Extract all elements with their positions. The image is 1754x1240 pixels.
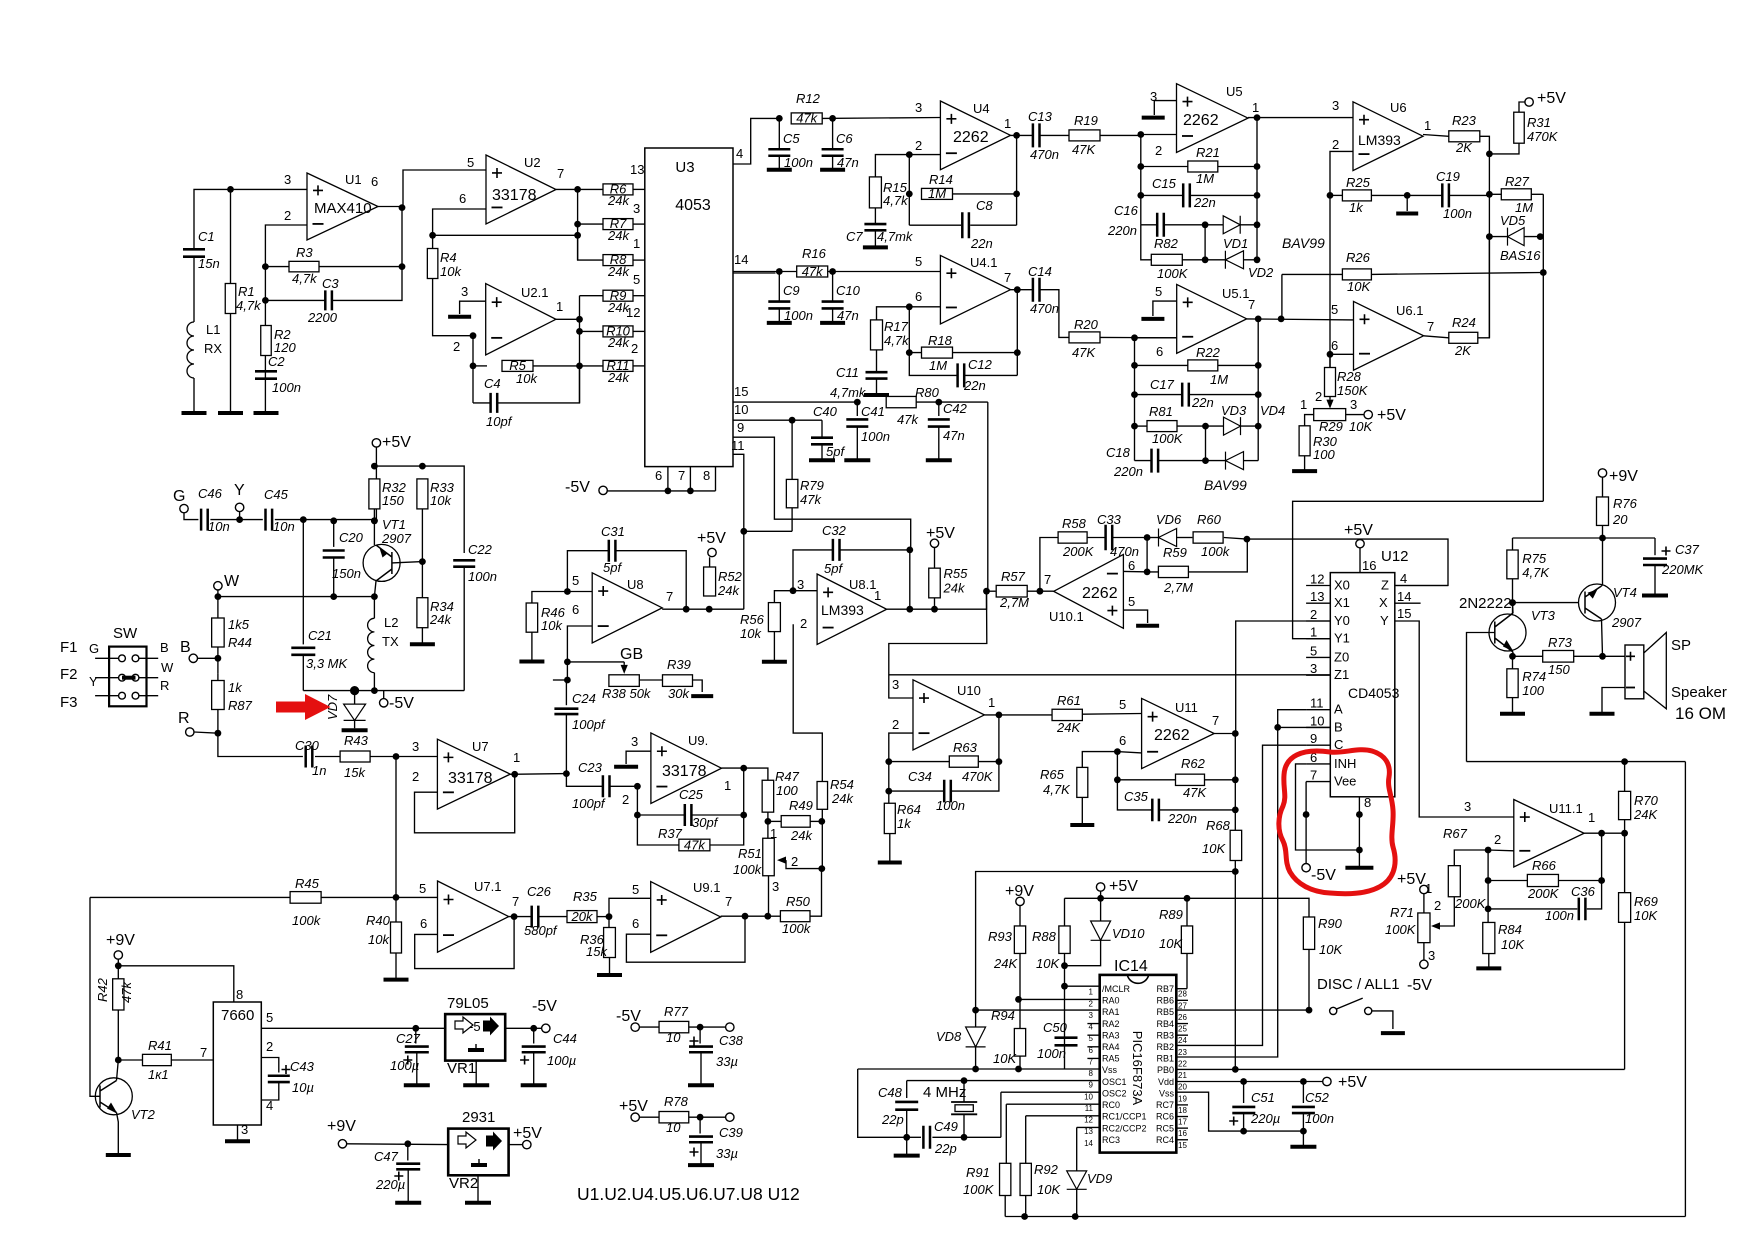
capacitor C24 [565,680,567,705]
svg-text:+5V: +5V [1338,1074,1367,1091]
svg-text:220MK: 220MK [1661,562,1705,577]
svg-text:R64: R64 [897,802,921,817]
svg-text:C36: C36 [1571,884,1596,899]
svg-text:2K: 2K [1455,140,1473,155]
svg-text:C26: C26 [527,884,552,899]
ground [688,1163,714,1167]
svg-text:INH: INH [1334,756,1356,771]
svg-text:C17: C17 [1150,377,1175,392]
resistor R93 [1014,926,1025,954]
svg-text:R66: R66 [1532,858,1557,873]
svg-text:6: 6 [420,916,427,931]
svg-text:R89: R89 [1159,907,1183,922]
wire pin 8 gnd [1358,797,1360,868]
svg-text:7: 7 [725,894,732,909]
ground [404,1083,430,1087]
resistor R26 [1282,273,1343,275]
diode VD6 [1147,537,1158,539]
wire VT2 base to R45 net [90,897,100,1096]
wire GB wiper [567,661,624,663]
svg-text:30pf: 30pf [692,815,719,830]
wire R26 leg to U5.1 output [1281,274,1283,319]
svg-text:+9V: +9V [327,1118,356,1135]
svg-text:C10: C10 [836,283,861,298]
svg-text:VT4: VT4 [1613,585,1637,600]
wire Vee to -5V [1305,782,1307,864]
svg-text:R42: R42 [95,977,110,1002]
resistor R34 [417,598,428,628]
svg-text:12: 12 [1310,572,1324,587]
svg-text:25: 25 [1178,1025,1187,1034]
svg-text:C8: C8 [976,198,993,213]
svg-text:+9V: +9V [1005,883,1034,900]
op-amp U9.1 [651,882,721,953]
svg-text:R90: R90 [1318,916,1343,931]
svg-text:C3: C3 [322,276,339,291]
svg-text:RC2/CCP2: RC2/CCP2 [1102,1123,1147,1133]
svg-text:3: 3 [461,284,468,299]
capacitor C17 [1135,394,1183,396]
svg-text:1: 1 [1310,625,1317,640]
svg-text:47K: 47K [1072,142,1096,157]
wire U5.1 inverting node [1135,337,1177,339]
svg-text:4,7k: 4,7k [883,193,909,208]
ground [1345,866,1373,870]
svg-text:U12: U12 [1381,548,1409,565]
svg-text:Vdd: Vdd [1158,1077,1174,1087]
svg-text:2: 2 [915,138,922,153]
wire VR2 gnd [477,1175,479,1202]
svg-text:U4.1: U4.1 [970,255,997,270]
wire U7.1 feedback [415,917,514,969]
resistor R80 [886,396,916,407]
svg-text:G: G [173,488,185,505]
svg-text:22p: 22p [934,1141,957,1156]
resistor R5 [473,365,487,367]
node R23/R31 [1486,151,1493,158]
capacitor C42 [938,402,940,416]
op-amp U4 [940,101,1010,170]
svg-text:R51: R51 [738,846,762,861]
svg-text:SP: SP [1671,637,1691,654]
svg-text:2K: 2K [1454,343,1472,358]
svg-text:B: B [1334,719,1343,734]
svg-text:6: 6 [1156,344,1163,359]
svg-text:C24: C24 [572,691,596,706]
svg-text:5pf: 5pf [603,560,622,575]
wire VR1 out [505,1027,541,1029]
svg-text:C13: C13 [1028,109,1053,124]
svg-text:2: 2 [1332,137,1339,152]
svg-text:VD2: VD2 [1248,265,1274,280]
svg-text:220µ: 220µ [1250,1111,1280,1126]
svg-text:R40: R40 [366,913,391,928]
wire pin11 bus to R79 [744,530,792,532]
svg-text:200K: 200K [1062,544,1095,559]
svg-text:7: 7 [1004,270,1011,285]
svg-text:W: W [224,573,240,590]
+9V terminal VR2 [338,1140,346,1148]
resistor R17 [871,320,883,350]
wire W node rail [218,596,375,598]
+9V terminal PIC [1016,897,1024,905]
inductor L2 TX [368,618,375,672]
svg-text:1к1: 1к1 [148,1067,169,1082]
svg-text:C45: C45 [264,487,289,502]
svg-text:22: 22 [1178,1059,1187,1068]
svg-text:RB6: RB6 [1156,996,1174,1006]
op-amp U11 [1142,698,1215,768]
svg-text:470n: 470n [1110,544,1139,559]
svg-text:220n: 220n [1107,223,1137,238]
wire VT2 emitter [117,1113,119,1156]
svg-text:100: 100 [1313,447,1335,462]
resistor R37 [679,839,710,851]
svg-text:5: 5 [467,155,474,170]
wire C16-R82 left leg [1141,225,1151,260]
wire B net joins A [1278,726,1331,728]
wire U10 output [984,714,1052,716]
svg-text:20: 20 [1178,1083,1187,1092]
svg-text:4,7k: 4,7k [884,333,910,348]
svg-text:20k: 20k [571,909,594,924]
svg-text:13: 13 [630,162,644,177]
svg-text:28: 28 [1178,990,1187,999]
svg-text:C11: C11 [836,365,859,380]
resistor R40 [395,897,397,922]
svg-text:10k: 10k [740,626,762,641]
svg-text:C25: C25 [679,787,704,802]
resistor R54 [793,624,822,781]
capacitor C15 [1141,194,1183,196]
svg-text:RC7: RC7 [1156,1100,1174,1110]
svg-text:2: 2 [284,208,291,223]
resistor R47 [762,780,774,812]
svg-text:RA1: RA1 [1102,1007,1120,1017]
wire R71 to +5V [1423,894,1425,913]
capacitor C6 [832,118,834,149]
svg-text:580pf: 580pf [524,923,558,938]
svg-text:G: G [89,641,99,656]
diode VD1 [1205,224,1223,226]
svg-text:100K: 100K [1152,431,1184,446]
capacitor C10 [832,272,834,302]
svg-text:U1.U2.U4.U5.U6.U7.U8 U12: U1.U2.U4.U5.U6.U7.U8 U12 [577,1184,800,1204]
resistor R62 [1114,776,1121,783]
ground [395,1201,421,1205]
wire U2.1 - node [470,332,477,339]
svg-text:10pf: 10pf [486,414,513,429]
wire base net to R70 [1467,761,1686,763]
svg-text:79L05: 79L05 [447,995,489,1012]
svg-text:C46: C46 [198,486,223,501]
svg-text:W: W [161,660,174,675]
svg-text:2: 2 [266,1039,273,1054]
IC U3 4053 [645,148,733,467]
wire R67 to R71 wiper [1440,897,1454,926]
svg-text:3: 3 [633,201,640,216]
wire U9 - node [634,783,641,790]
wire U6.1 inverting [1330,353,1354,355]
svg-text:U11: U11 [1175,700,1198,715]
svg-text:4 MHz: 4 MHz [923,1084,966,1101]
wire R16 to U4.1+ [733,271,797,273]
capacitor C35 [1117,780,1152,810]
svg-text:3,3 MK: 3,3 MK [306,656,349,671]
wire U11.1 output [1584,832,1625,834]
resistor R27 [1489,193,1501,195]
svg-text:U9.1: U9.1 [693,880,720,895]
svg-text:6: 6 [1128,558,1135,573]
svg-text:Y: Y [234,482,245,499]
svg-text:5pf: 5pf [824,561,843,576]
svg-text:-5V: -5V [532,998,557,1015]
ground [1488,954,1490,969]
ground [926,458,952,462]
wire +5V rail to U12 [1247,539,1448,585]
svg-text:3: 3 [412,739,419,754]
op-amp U6.1 [1354,301,1424,370]
svg-text:24K: 24K [1056,720,1081,735]
svg-text:R76: R76 [1613,496,1638,511]
svg-text:RC6: RC6 [1156,1112,1174,1122]
svg-text:+5V: +5V [1397,871,1426,888]
svg-text:R63: R63 [953,740,978,755]
wire RC1 to R92 [1026,1115,1100,1117]
svg-text:R41: R41 [148,1038,172,1053]
diode VD5 [1489,236,1507,238]
svg-text:C52: C52 [1305,1090,1330,1105]
svg-text:2907: 2907 [1611,615,1642,630]
svg-text:6: 6 [915,289,922,304]
svg-text:12: 12 [626,305,640,320]
wire VR2 out [509,1144,523,1146]
svg-text:U3: U3 [675,159,694,176]
capacitor C1 [183,249,205,256]
svg-text:23: 23 [1178,1048,1187,1057]
svg-text:220n: 220n [1167,811,1197,826]
svg-text:C47: C47 [374,1149,399,1164]
capacitor C50 [1055,1038,1078,1046]
svg-text:5: 5 [419,881,426,896]
wire +5V rail [375,447,377,521]
svg-text:R35: R35 [573,889,598,904]
wire U5.1 left bus [1134,338,1136,461]
svg-text:1: 1 [556,299,563,314]
svg-text:10k: 10k [368,932,390,947]
resistor R57 [987,590,996,592]
ground [521,1083,547,1087]
capacitor C9 [778,272,780,302]
svg-text:15: 15 [1397,606,1411,621]
svg-text:1k5: 1k5 [228,617,250,632]
wire +5V rail [1065,898,1310,917]
svg-text:A: A [1334,702,1343,717]
wire -5V node rail [303,690,464,692]
svg-text:1: 1 [633,236,640,251]
capacitor C40 [821,420,823,438]
diode VD2 [1205,259,1225,261]
svg-text:6: 6 [371,174,378,189]
wire VD5 bus [1488,154,1490,338]
wire Z1 long net [889,674,1331,676]
resistor R18 [922,347,953,358]
svg-text:24: 24 [1178,1036,1187,1045]
resistor R2 [261,326,272,356]
svg-text:2: 2 [1315,389,1322,404]
wire OSC1 row [907,1080,1100,1082]
svg-text:U10: U10 [957,683,981,698]
capacitor C23 [566,774,603,787]
resistor R73 [1513,655,1543,657]
svg-text:5: 5 [572,573,579,588]
svg-text:R4: R4 [440,250,457,265]
svg-text:10K: 10K [1634,908,1658,923]
svg-text:220µ: 220µ [375,1177,405,1192]
svg-text:VD4: VD4 [1260,403,1285,418]
svg-text:2: 2 [791,854,798,869]
diode VD7 [354,691,356,705]
svg-text:7: 7 [1248,297,1255,312]
resistor R35 [567,911,597,923]
svg-text:/MCLR: /MCLR [1102,984,1131,994]
svg-text:8: 8 [1364,795,1371,810]
svg-text:100K: 100K [1385,922,1417,937]
svg-text:7: 7 [557,166,564,181]
svg-text:10k: 10k [430,493,452,508]
svg-text:22n: 22n [1191,395,1214,410]
-5V terminal [599,486,607,494]
capacitor C21 [302,520,304,645]
svg-text:U2: U2 [524,155,541,170]
svg-text:150K: 150K [1337,383,1369,398]
svg-text:R80: R80 [915,385,940,400]
svg-text:Y0: Y0 [1334,613,1350,628]
pot R29 wiper arrow [1326,400,1333,409]
+5V terminal [930,539,938,547]
wire speaker minus [1602,688,1625,714]
svg-text:100µ: 100µ [547,1053,576,1068]
svg-text:1: 1 [1300,397,1307,412]
svg-text:2262: 2262 [1154,727,1190,744]
wire R87 bottom to C30 [218,710,303,757]
resistor R9 [580,295,604,297]
node VD1 anode [1202,221,1209,228]
svg-text:1: 1 [1004,116,1011,131]
svg-text:+9V: +9V [1609,468,1638,485]
svg-text:R55: R55 [944,566,969,581]
svg-text:5: 5 [1331,302,1338,317]
wire R1 branch [230,189,232,413]
wire to R31 [1489,143,1519,154]
resistor R39 [663,675,693,687]
svg-text:1k: 1k [897,816,912,831]
speaker SP [1625,645,1644,699]
resistor R43 body [340,751,370,762]
svg-text:C19: C19 [1436,169,1460,184]
svg-text:-5V: -5V [1407,977,1432,994]
resistor R84 [1483,922,1495,953]
wire pin 11 [733,454,744,609]
svg-text:U5.1: U5.1 [1222,286,1249,301]
resistor R50 [768,915,781,917]
ground [1081,797,1083,825]
svg-text:47k: 47k [802,264,824,279]
svg-text:150: 150 [1548,662,1570,677]
svg-text:SW: SW [113,625,138,642]
svg-text:120: 120 [274,340,296,355]
svg-text:RC1/CCP1: RC1/CCP1 [1102,1112,1147,1122]
svg-text:10n: 10n [208,519,230,534]
node junction [227,186,234,193]
wire R76 bottom rail [1602,526,1604,585]
op-amp U10.1 mirrored [1054,554,1124,628]
resistor R52 [704,567,716,596]
svg-text:6: 6 [632,916,639,931]
svg-text:Z0: Z0 [1334,649,1349,664]
svg-text:10: 10 [666,1030,681,1045]
svg-text:Vss: Vss [1159,1088,1175,1098]
ground [864,393,889,397]
svg-text:VD3: VD3 [1221,403,1247,418]
svg-text:R12: R12 [796,91,821,106]
resistor R77 [659,1021,689,1032]
svg-text:R69: R69 [1634,894,1658,909]
svg-text:R75: R75 [1522,551,1547,566]
resistor R14 [922,188,953,199]
resistor R82 [1151,254,1182,265]
resistor R81 [1135,425,1148,427]
wire U11 inverting [1117,752,1141,780]
svg-text:5: 5 [915,254,922,269]
svg-text:24K: 24K [1633,807,1658,822]
svg-text:U9.: U9. [688,733,708,748]
ground [688,1083,714,1087]
svg-text:X: X [1379,595,1388,610]
svg-text:47K: 47K [1183,785,1207,800]
svg-text:16: 16 [1362,558,1376,573]
svg-text:10K: 10K [1036,956,1060,971]
svg-text:BAV99: BAV99 [1282,235,1325,251]
svg-text:4: 4 [1400,571,1407,586]
svg-text:3: 3 [1089,1011,1094,1020]
svg-text:22p: 22p [881,1112,904,1127]
svg-text:+5V: +5V [382,434,411,451]
svg-text:2,7M: 2,7M [999,595,1029,610]
svg-text:R57: R57 [1001,569,1026,584]
pot R71 [1418,913,1430,943]
svg-text:R44: R44 [228,635,252,650]
svg-text:F2: F2 [60,666,78,683]
capacitor C38 [699,1027,701,1043]
svg-text:14: 14 [1397,589,1411,604]
svg-text:33µ: 33µ [716,1054,738,1069]
wire Y input [235,503,243,511]
svg-text:R54: R54 [830,777,854,792]
svg-text:VD9: VD9 [1087,1171,1112,1186]
svg-text:9: 9 [1089,1081,1094,1090]
svg-text:U2.1: U2.1 [521,285,548,300]
svg-text:-5: -5 [469,1019,481,1034]
svg-text:100n: 100n [468,569,497,584]
svg-text:2N2222: 2N2222 [1459,595,1512,612]
resistor R19 [1069,130,1100,141]
svg-text:MAX410: MAX410 [314,200,372,217]
svg-text:RA2: RA2 [1102,1019,1120,1029]
resistor R49 [768,820,781,822]
op-amp U4.1 [940,255,1010,324]
svg-text:1M: 1M [929,358,947,373]
